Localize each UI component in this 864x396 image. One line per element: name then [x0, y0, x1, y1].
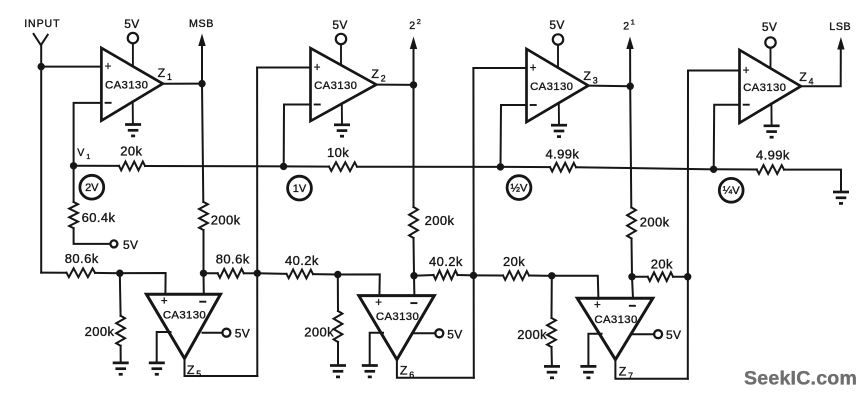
resistor 200k (Z7 + to ground)	[547, 318, 556, 347]
wire MSB to 200k	[202, 84, 203, 202]
wire 20k to node I	[673, 276, 688, 278]
terminal 5V (Z7)	[654, 328, 681, 342]
svg-text:80.6k: 80.6k	[65, 251, 99, 266]
svg-text:5V: 5V	[123, 238, 138, 252]
ground Z3	[551, 103, 567, 137]
resistor 4.99k (quarter-V to ground)	[757, 165, 784, 174]
svg-text:MSB: MSB	[189, 18, 214, 30]
svg-text:200k: 200k	[425, 213, 455, 228]
svg-text:80.6k: 80.6k	[216, 251, 250, 266]
ground (Z6 pin)	[362, 366, 378, 377]
wire Z3 output	[588, 85, 630, 88]
wire 200k to ground (Z6 bias)	[337, 342, 339, 365]
node Z2 output 2^2	[410, 81, 417, 88]
svg-text:2: 2	[381, 74, 386, 84]
wire 200k to ground	[120, 346, 122, 363]
arrow 2^2	[410, 37, 417, 50]
wire 200k to summing node A	[203, 230, 205, 273]
wire node H to Z7 + input	[552, 276, 599, 299]
resistor 60.4k	[69, 202, 78, 228]
svg-text:2: 2	[409, 20, 415, 32]
svg-text:40.2k: 40.2k	[429, 254, 463, 269]
svg-text:3: 3	[593, 76, 598, 86]
label Z1	[158, 66, 172, 82]
svg-text:20k: 20k	[120, 144, 142, 159]
wire Z4 output to LSB	[801, 48, 841, 86]
wire V1 node to 20k	[74, 165, 119, 167]
wire node E to 40.2k	[257, 272, 286, 275]
svg-text:4: 4	[809, 77, 814, 87]
wire 2^1 line up	[629, 48, 631, 87]
svg-text:INPUT: INPUT	[24, 18, 60, 30]
ground (Z6 bias 200k)	[330, 366, 346, 377]
wire Z7 output	[615, 360, 687, 379]
wire node B to Z6 - input	[413, 276, 415, 296]
svg-text:CA3130: CA3130	[163, 310, 206, 322]
5V supply Z4	[762, 20, 777, 68]
5V supply Z1	[124, 17, 139, 67]
ground (reference string end)	[833, 192, 849, 203]
svg-text:1: 1	[167, 72, 172, 82]
node Z1 output MSB	[198, 80, 205, 87]
op-amp Z3	[527, 49, 589, 122]
wire Z3 inverting input to half-V node	[501, 105, 527, 167]
svg-text:2: 2	[417, 17, 421, 26]
arrow LSB	[837, 37, 844, 50]
wire INPUT antenna line	[40, 45, 42, 272]
label Z7	[619, 364, 633, 380]
resistor 200k (Z6 + to ground)	[334, 311, 343, 342]
resistor 80.6k (node A to Z5 out)	[218, 269, 244, 278]
label 2^2	[409, 17, 421, 32]
node D (Z5 + junction)	[116, 270, 123, 277]
wire half-V node to 4.99k	[500, 166, 550, 168]
ground (Z5 pin)	[149, 363, 165, 374]
svg-text:CA3130: CA3130	[743, 82, 786, 94]
svg-text:20k: 20k	[651, 257, 673, 272]
wire node B to 40.2k	[414, 274, 434, 277]
svg-text:CA3130: CA3130	[314, 80, 357, 92]
label 2^1	[623, 18, 635, 33]
svg-text:+: +	[375, 297, 382, 309]
terminal 5V (Z5)	[222, 327, 250, 341]
svg-text:½V: ½V	[510, 183, 527, 195]
resistor 40.2k (node B to Z6 out)	[434, 271, 458, 280]
wire 200k to ground (Z7 bias)	[551, 347, 553, 366]
wire node C to Z7 - input	[632, 277, 633, 299]
wire 40.2k to node F	[313, 273, 338, 275]
wire Z6 5V lead	[412, 332, 435, 334]
svg-text:Z: Z	[400, 363, 408, 377]
wire Z5 output	[185, 359, 258, 377]
wire node H down to 200k	[551, 276, 553, 318]
resistor 200k (2^2 chain)	[409, 207, 418, 238]
svg-text:CA3130: CA3130	[105, 79, 148, 91]
wire Z7 5V lead	[631, 333, 655, 335]
wire 20k to node H	[529, 275, 552, 277]
wire 60.4k to 5V terminal	[74, 228, 111, 244]
op-amp Z1	[101, 48, 162, 121]
wire Z2 output	[376, 84, 413, 86]
wire Z1 output	[163, 83, 202, 85]
svg-text:Z: Z	[187, 363, 195, 377]
svg-text:Z: Z	[371, 67, 379, 81]
svg-text:200k: 200k	[304, 325, 334, 340]
svg-text:LSB: LSB	[829, 21, 851, 33]
svg-text:SeekIC.com: SeekIC.com	[744, 368, 857, 390]
source quarter-V	[719, 178, 743, 202]
wire Z4 + input	[688, 70, 740, 72]
resistor 10k (1V to half-V)	[329, 162, 357, 171]
svg-text:7: 7	[628, 371, 633, 381]
label Z5	[187, 363, 201, 379]
terminal 5V (Z6)	[435, 327, 462, 341]
svg-text:5V: 5V	[447, 327, 462, 341]
label Z3	[583, 69, 597, 85]
wire node F down to 200k	[337, 275, 339, 312]
wire 10k to half-V node	[357, 166, 500, 168]
svg-text:Z: Z	[158, 66, 166, 80]
svg-text:CA3130: CA3130	[376, 311, 419, 323]
svg-text:Z: Z	[619, 364, 627, 378]
5V supply Z2	[332, 18, 347, 65]
wire node F to Z6 + input	[338, 274, 380, 295]
wire Z2 inverting input to 1V node	[284, 105, 311, 167]
ground Z1	[125, 102, 141, 136]
svg-text:200k: 200k	[85, 324, 115, 339]
ground Z4	[764, 103, 780, 137]
svg-text:5V: 5V	[332, 18, 347, 32]
wire Z5 strobe to ground	[157, 332, 171, 363]
wire Z3 + input	[473, 67, 526, 69]
source half-V	[507, 176, 531, 200]
terminal 5V (60.4k)	[110, 238, 138, 252]
source 1V	[288, 176, 312, 200]
svg-text:60.4k: 60.4k	[82, 210, 116, 225]
op-amp Z6	[359, 296, 435, 360]
ground (Z7 bias 200k)	[544, 366, 560, 377]
arrow 2^1	[626, 37, 633, 50]
wire 80.6k to node E	[244, 272, 257, 274]
ground (Z7 pin)	[580, 366, 596, 377]
svg-text:CA3130: CA3130	[530, 81, 573, 93]
svg-text:+: +	[161, 296, 168, 308]
label Z2	[371, 67, 385, 83]
svg-text:5V: 5V	[549, 18, 564, 32]
svg-text:4.99k: 4.99k	[756, 148, 790, 163]
node quarter-V	[710, 166, 717, 173]
wire node C to 20k	[632, 276, 648, 278]
node G (Z6 out junction)	[470, 272, 477, 279]
label Z4	[799, 70, 813, 86]
wire Z5 5V lead	[203, 332, 223, 334]
wire 4.99k to ground corner	[784, 170, 841, 192]
svg-text:+: +	[594, 300, 601, 312]
svg-text:1: 1	[86, 152, 90, 161]
wire node G to 20k	[474, 274, 504, 276]
wire 4.99k to quarter-V node	[576, 167, 714, 169]
wire 200k to summing node C	[631, 239, 634, 277]
wire input to Z1 + input	[41, 66, 101, 68]
svg-text:+: +	[743, 65, 750, 77]
svg-text:200k: 200k	[211, 212, 241, 227]
op-amp Z4	[740, 50, 801, 123]
resistor 200k (MSB chain)	[199, 202, 208, 230]
op-amp Z5	[146, 294, 220, 358]
wire Z2 + input	[257, 67, 310, 69]
node B (Z6 summing)	[410, 272, 417, 279]
node I (Z7 out junction)	[684, 273, 691, 280]
arrow MSB	[198, 34, 205, 47]
node Z3 output 2^1	[627, 83, 634, 90]
wire quarter-V node to 4.99k	[714, 168, 757, 170]
wire node A to 80.6k	[204, 272, 218, 274]
svg-text:5V: 5V	[124, 17, 139, 31]
wire 200k to summing node B	[413, 238, 416, 276]
wire node D to Z5 + input	[120, 273, 166, 295]
label Z6	[400, 363, 414, 379]
resistor 200k (Z5 + to ground)	[116, 316, 125, 346]
svg-text:4.99k: 4.99k	[546, 147, 580, 162]
node input / Z1 noninverting junction	[38, 63, 45, 70]
resistor 20k (node G to node H)	[503, 271, 529, 280]
svg-text:200k: 200k	[640, 215, 670, 230]
svg-text:200k: 200k	[517, 327, 547, 342]
svg-text:V: V	[77, 147, 85, 159]
wire Z6 out / Z3 + vertical bus	[472, 68, 474, 378]
wire node A to Z5 - input	[203, 273, 205, 294]
svg-text:1V: 1V	[293, 183, 307, 195]
5V supply Z3	[549, 18, 564, 67]
resistor 200k (2^1 chain)	[627, 208, 636, 239]
wire node D down to 200k	[119, 273, 122, 316]
node E (Z5 out junction)	[254, 270, 261, 277]
svg-text:5V: 5V	[666, 328, 681, 342]
ground Z2	[334, 104, 350, 137]
svg-text:Z: Z	[799, 70, 807, 84]
svg-text:10k: 10k	[327, 145, 349, 160]
node half-V	[497, 163, 504, 170]
svg-text:Z: Z	[583, 69, 591, 83]
resistor 80.6k (input to Z5 +)	[67, 268, 96, 277]
node V1	[70, 162, 77, 169]
node A (Z5 summing)	[200, 270, 207, 277]
source 2V	[80, 175, 104, 199]
resistor 20k (V1 to 1V)	[119, 162, 145, 171]
wire Z7 strobe to ground	[588, 334, 601, 366]
wire MSB line up	[201, 45, 203, 84]
resistor 4.99k (half-V to quarter-V)	[550, 163, 576, 172]
resistor 20k (node C to Z7 out)	[648, 272, 673, 281]
wire 40.2k to node G	[458, 274, 474, 276]
node F (Z6 + junction)	[334, 271, 341, 278]
wire Z7 out / Z4 + vertical bus	[687, 71, 689, 379]
wire 1V node to 10k	[284, 165, 329, 167]
svg-text:20k: 20k	[503, 254, 525, 269]
op-amp Z7	[577, 298, 653, 359]
wire Z1 inverting input to node V1	[74, 103, 102, 166]
wire 20k to 1V node	[145, 165, 284, 167]
ground (Z5 bias 200k)	[113, 363, 129, 374]
wire V1 node to 60.4k	[73, 166, 75, 202]
wire Z5 out / Z2 + vertical bus	[256, 68, 258, 377]
antenna INPUT	[24, 18, 60, 45]
node C (Z7 summing)	[628, 273, 635, 280]
svg-text:5V: 5V	[762, 20, 777, 34]
wire 80.6k to node D	[95, 272, 120, 274]
wire Z4 inverting input to quarter-V node	[714, 105, 740, 170]
svg-text:2: 2	[623, 21, 629, 33]
wire Z6 strobe to ground	[370, 333, 383, 366]
wire input line to 80.6k	[41, 272, 66, 274]
label V1	[77, 147, 90, 161]
node H (Z7 + junction)	[548, 272, 555, 279]
wire 2^2 line up	[413, 48, 415, 85]
svg-text:5V: 5V	[235, 327, 250, 341]
svg-text:40.2k: 40.2k	[285, 253, 319, 268]
svg-text:¼V: ¼V	[723, 185, 740, 197]
svg-text:1: 1	[631, 18, 635, 27]
svg-text:+: +	[105, 61, 112, 73]
svg-text:+: +	[530, 63, 537, 75]
svg-text:CA3130: CA3130	[594, 314, 637, 326]
svg-text:5: 5	[196, 369, 201, 379]
op-amp Z2	[311, 48, 377, 121]
node 1V	[280, 163, 287, 170]
resistor 40.2k (node E to node F)	[287, 270, 314, 279]
wire 2^1 to 200k	[630, 86, 631, 207]
wire 2^2 to 200k	[413, 85, 415, 207]
svg-text:2V: 2V	[85, 182, 99, 194]
svg-text:6: 6	[409, 370, 414, 380]
svg-text:+: +	[314, 62, 321, 74]
wire Z6 output	[397, 360, 474, 378]
